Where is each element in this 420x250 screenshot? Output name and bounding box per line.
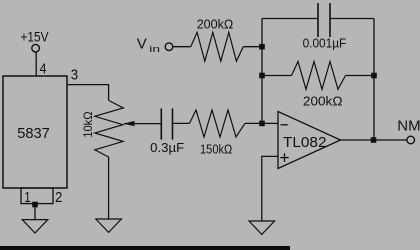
left feedback rail wire [261, 19, 263, 124]
capacitor C1 0.3uF [161, 108, 172, 139]
capacitor C2 0.001uF [318, 3, 330, 37]
node F junction at IC ground [32, 202, 38, 208]
wire C1 to resistor R2 [173, 122, 190, 124]
svg-text:NM: NM [397, 118, 420, 135]
wire non-inverting input to ground [262, 156, 278, 221]
wire R4 to right rail [346, 75, 375, 77]
wire left rail to capacitor C2 [262, 18, 318, 20]
node E output junction [371, 137, 377, 143]
node C junction [259, 73, 265, 79]
wire C2 to right rail [330, 18, 374, 20]
wire R3 to node B [243, 46, 262, 48]
ground at op-amp [249, 221, 275, 234]
svg-text:4: 4 [40, 61, 47, 78]
wire node C to resistor R4 [262, 75, 292, 77]
svg-text:2: 2 [55, 189, 62, 206]
power terminal +15V [32, 44, 40, 52]
node B junction [259, 44, 265, 50]
wire IC to ground [34, 205, 36, 220]
svg-text:200kΩ: 200kΩ [303, 94, 343, 109]
svg-text:5837: 5837 [17, 125, 50, 142]
label Vin [137, 35, 160, 54]
ground at potentiometer [96, 219, 122, 232]
svg-text:1: 1 [24, 189, 31, 206]
potentiometer wiper arrow [123, 121, 161, 126]
wire op-amp output [341, 139, 407, 141]
resistor R3 200k input [191, 32, 244, 61]
svg-text:V: V [137, 35, 147, 52]
op-amp U2 TL082 [278, 112, 341, 169]
svg-text:0.001µF: 0.001µF [303, 36, 347, 51]
svg-text:+15V: +15V [21, 29, 50, 45]
non-inverting input plus sign [280, 153, 289, 162]
wire potentiometer to ground [108, 157, 110, 219]
input terminal Vin [165, 43, 173, 51]
resistor R2 150k [190, 110, 245, 137]
wire R2 to node A [245, 122, 262, 124]
potentiometer R1 body [95, 100, 124, 157]
inverting input minus sign [281, 124, 288, 126]
svg-text:200kΩ: 200kΩ [197, 17, 234, 32]
wire Vin terminal to resistor R3 [173, 46, 191, 48]
node D junction [371, 73, 377, 79]
svg-text:3: 3 [71, 67, 78, 84]
wire IC pin 3 to potentiometer top [67, 85, 109, 101]
node A junction [259, 121, 265, 127]
svg-text:0.3µF: 0.3µF [150, 140, 184, 155]
svg-text:TL082: TL082 [283, 134, 327, 151]
svg-text:150kΩ: 150kΩ [200, 142, 233, 157]
IC pins sub-box [21, 188, 53, 204]
svg-text:in: in [149, 44, 160, 55]
right feedback rail wire [373, 19, 375, 141]
ground at IC [22, 220, 48, 233]
wire +15V terminal to IC pin 4 [35, 52, 37, 76]
resistor R4 200k feedback [292, 62, 346, 90]
bottom separator bar [0, 246, 290, 250]
wire node A to op-amp inverting input [262, 122, 278, 124]
output terminal NM [407, 136, 415, 144]
svg-text:10kΩ: 10kΩ [81, 111, 95, 138]
IC U1 5837 body [3, 76, 67, 188]
